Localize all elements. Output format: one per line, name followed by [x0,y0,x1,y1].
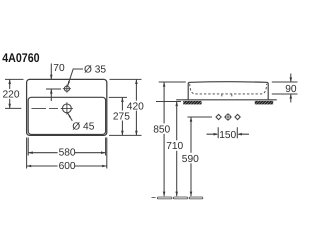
svg-text:850: 850 [153,124,170,135]
svg-text:90: 90 [285,84,297,95]
svg-text:275: 275 [113,112,130,123]
svg-text:70: 70 [53,63,65,74]
svg-text:Ø 45: Ø 45 [72,121,94,132]
svg-text:590: 590 [182,154,199,165]
svg-text:220: 220 [3,89,20,100]
svg-text:580: 580 [59,148,76,159]
svg-text:710: 710 [166,141,183,152]
svg-text:Ø 35: Ø 35 [84,64,106,75]
svg-text:4A0760: 4A0760 [2,51,39,65]
svg-text:600: 600 [59,161,76,172]
svg-text:150: 150 [219,130,236,141]
